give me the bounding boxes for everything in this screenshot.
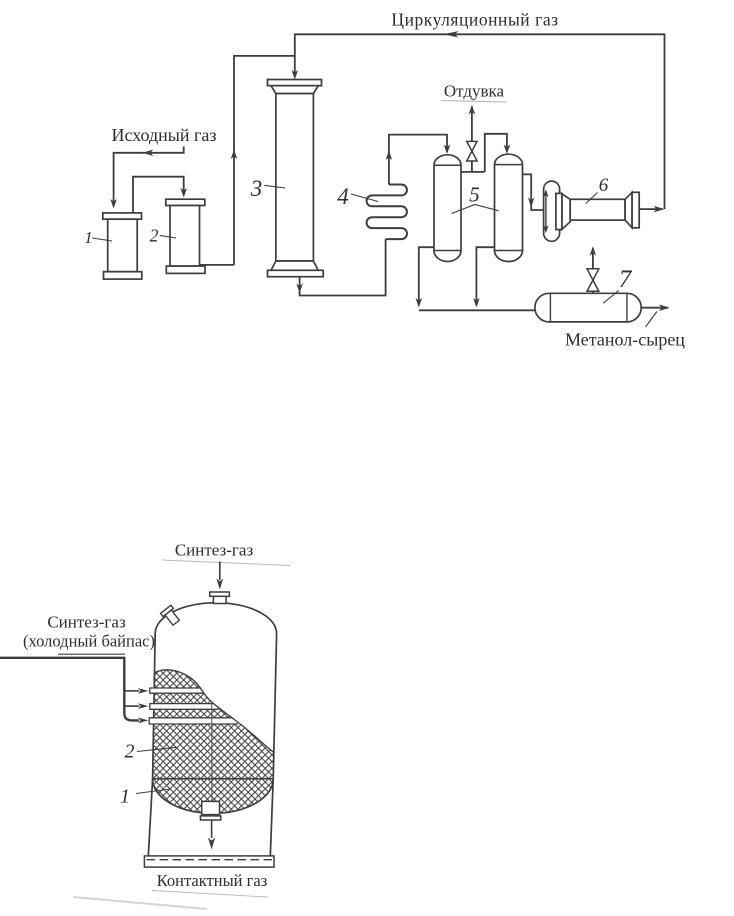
catalyst bed surface line bbox=[155, 670, 274, 753]
reactor base ring bbox=[144, 856, 274, 867]
svg-text:4: 4 bbox=[337, 184, 349, 209]
separator 7 bbox=[535, 293, 641, 322]
reactor bottom nozzle bbox=[202, 801, 220, 814]
wire vessel 5a bottom outlet bbox=[419, 247, 434, 305]
svg-text:Отдувка: Отдувка bbox=[444, 82, 505, 101]
wire vessel 5a to vessel 5b bbox=[485, 134, 507, 172]
wire compressor internal arrow bbox=[545, 192, 547, 232]
vessel 5a bbox=[434, 155, 461, 262]
coil heat exchanger 4 bbox=[367, 185, 407, 240]
wire riser from vessel 2 to column 3 bbox=[234, 56, 295, 265]
compressor 6 bbox=[544, 181, 640, 241]
catalyst bed 2 hatched bbox=[153, 670, 274, 779]
svg-text:7: 7 bbox=[619, 266, 633, 293]
wire cold bypass pipe bbox=[58, 653, 125, 655]
wire coil to vessel 5a bbox=[389, 135, 447, 185]
svg-text:Циркуляционный газ: Циркуляционный газ bbox=[391, 10, 558, 30]
scan line under Синтез-газ bbox=[162, 560, 290, 566]
vessel 1 bbox=[103, 213, 142, 279]
reactor side nozzle bbox=[161, 605, 182, 627]
scan line under Контактный газ bbox=[152, 891, 268, 898]
cooling tube band bottom bbox=[149, 718, 237, 724]
wire condensate header bbox=[419, 309, 535, 311]
svg-text:6: 6 bbox=[599, 175, 609, 196]
reactor axis line bbox=[211, 704, 213, 801]
svg-text:3: 3 bbox=[250, 176, 263, 201]
valve separator vent bbox=[587, 269, 599, 292]
wire contact gas outlet arrow bbox=[211, 821, 213, 839]
wire vessel 2 outlet bbox=[200, 264, 235, 266]
svg-text:2: 2 bbox=[150, 226, 159, 246]
reactor top nozzle bbox=[210, 592, 230, 604]
support grid line bbox=[153, 778, 274, 780]
svg-text:1: 1 bbox=[120, 786, 130, 808]
column 3 bbox=[268, 80, 324, 277]
svg-text:Исходный газ: Исходный газ bbox=[111, 125, 216, 145]
svg-text:(холодный байпас): (холодный байпас) bbox=[23, 632, 155, 651]
wire methanol product outlet bbox=[641, 307, 668, 309]
svg-text:Синтез-газ: Синтез-газ bbox=[47, 613, 126, 632]
svg-text:5: 5 bbox=[469, 183, 480, 207]
wire vessel 5b bottom outlet bbox=[476, 247, 494, 305]
wire purge line with vent bbox=[461, 107, 485, 172]
wire feed gas line into vessel 1 bbox=[114, 147, 184, 207]
wire compressor discharge bbox=[639, 208, 663, 210]
scan underline under Отдувка bbox=[442, 101, 507, 103]
wire synthesis gas inlet arrow bbox=[219, 562, 221, 581]
wire vessel 5b to compressor bbox=[523, 174, 544, 210]
wire bypass branch arrows bbox=[124, 690, 139, 692]
cooling tube band middle bbox=[150, 704, 218, 710]
wire vessel 1 to vessel 2 bbox=[133, 177, 184, 213]
wire separator vent with valve bbox=[592, 248, 594, 293]
svg-text:Метанол-сырец: Метанол-сырец bbox=[565, 330, 685, 350]
vessel 2 bbox=[166, 199, 205, 273]
cooling tube band top bbox=[150, 688, 204, 693]
wire circulation gas loop bbox=[295, 34, 665, 209]
svg-text:Контактный газ: Контактный газ bbox=[157, 871, 268, 890]
svg-text:2: 2 bbox=[125, 741, 135, 763]
stray pointer mark bbox=[646, 312, 657, 328]
vessel 5b bbox=[495, 154, 523, 261]
valve purge bbox=[467, 141, 477, 161]
reactor shell bbox=[155, 603, 276, 634]
wire column 3 bottom to coil bbox=[300, 239, 386, 295]
svg-text:1: 1 bbox=[84, 228, 93, 247]
catalyst bed 1 in dished head hatched bbox=[153, 779, 274, 813]
scan smudge bottom left bbox=[73, 897, 207, 909]
svg-text:Синтез-газ: Синтез-газ bbox=[175, 541, 254, 560]
